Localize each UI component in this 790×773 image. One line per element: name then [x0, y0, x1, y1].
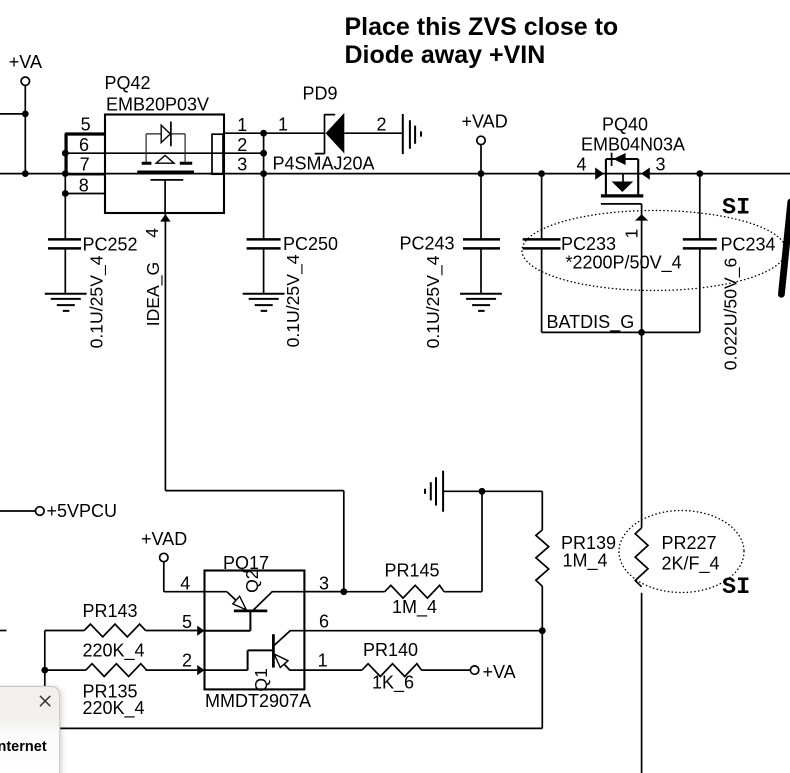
svg-text:3: 3	[655, 154, 665, 174]
svg-text:1: 1	[237, 115, 247, 135]
svg-text:PD9: PD9	[303, 84, 338, 104]
svg-text:PR143: PR143	[83, 601, 138, 621]
svg-text:*2200P/50V_4: *2200P/50V_4	[566, 253, 682, 274]
svg-text:PC243: PC243	[399, 234, 454, 254]
svg-text:4: 4	[180, 574, 190, 594]
svg-text:3: 3	[319, 574, 329, 594]
svg-text:EMB04N03A: EMB04N03A	[581, 135, 685, 155]
svg-text:P4SMAJ20A: P4SMAJ20A	[273, 154, 375, 174]
svg-text:1M_4: 1M_4	[392, 597, 437, 618]
svg-text:7: 7	[80, 155, 90, 175]
svg-text:3: 3	[237, 155, 247, 175]
svg-text:2: 2	[182, 651, 192, 671]
svg-text:Place this ZVS close to: Place this ZVS close to	[345, 13, 619, 41]
svg-text:+VA: +VA	[483, 662, 516, 682]
svg-text:220K_4: 220K_4	[83, 698, 145, 719]
svg-text:EMB20P03V: EMB20P03V	[106, 95, 209, 115]
svg-text:2: 2	[376, 115, 386, 135]
svg-text:1: 1	[278, 115, 288, 135]
svg-text:0.1U/25V_4: 0.1U/25V_4	[87, 255, 108, 348]
svg-text:0.1U/25V_4: 0.1U/25V_4	[423, 255, 444, 348]
svg-text:2: 2	[237, 135, 247, 155]
svg-text:8: 8	[79, 175, 89, 195]
svg-text:PC250: PC250	[283, 234, 338, 254]
svg-text:4: 4	[576, 154, 586, 174]
svg-text:SI: SI	[722, 574, 750, 601]
svg-text:PQ40: PQ40	[602, 114, 648, 134]
svg-text:6: 6	[79, 135, 89, 155]
svg-text:5: 5	[81, 115, 91, 135]
svg-text:1: 1	[621, 229, 641, 239]
svg-text:1: 1	[318, 651, 328, 671]
svg-text:IDEA_G: IDEA_G	[143, 262, 164, 327]
svg-text:PR227: PR227	[662, 533, 717, 553]
svg-text:BATDIS_G: BATDIS_G	[547, 312, 635, 333]
svg-text:0.022U/50V_6: 0.022U/50V_6	[721, 257, 742, 370]
svg-text:220K_4: 220K_4	[83, 640, 145, 661]
svg-text:PR145: PR145	[385, 561, 440, 581]
svg-text:5: 5	[182, 612, 192, 632]
svg-text:PC234: PC234	[721, 235, 776, 255]
svg-text:+VAD: +VAD	[462, 111, 508, 131]
svg-text:+VAD: +VAD	[141, 529, 187, 549]
svg-text:SI: SI	[722, 194, 750, 221]
svg-text:+5VPCU: +5VPCU	[47, 501, 118, 521]
svg-text:0.1U/25V_4: 0.1U/25V_4	[283, 254, 304, 347]
svg-text:6: 6	[319, 612, 329, 632]
svg-text:+VA: +VA	[9, 52, 42, 72]
svg-text:Diode away +VIN: Diode away +VIN	[345, 41, 546, 69]
svg-text:Q2: Q2	[242, 569, 262, 592]
svg-text:PQ42: PQ42	[105, 73, 151, 93]
svg-text:PC233: PC233	[561, 234, 616, 254]
svg-text:2K/F_4: 2K/F_4	[662, 554, 720, 575]
svg-text:MMDT2907A: MMDT2907A	[205, 691, 311, 711]
svg-text:PR140: PR140	[363, 640, 418, 660]
svg-text:PC252: PC252	[83, 235, 138, 255]
svg-text:Q1: Q1	[251, 668, 271, 691]
svg-text:1M_4: 1M_4	[563, 551, 608, 572]
svg-text:nternet: nternet	[0, 739, 47, 755]
svg-text:4: 4	[142, 228, 162, 238]
